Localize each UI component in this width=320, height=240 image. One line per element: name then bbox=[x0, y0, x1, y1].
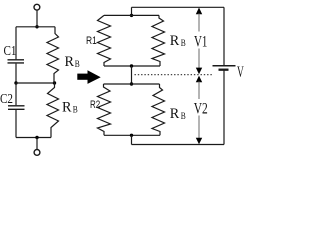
wire bottom-left horizontal bbox=[16, 137, 51, 139]
resistor R2 bbox=[98, 84, 111, 135]
wire right rail stub bottom bbox=[131, 135, 133, 144]
capacitor C2 bbox=[8, 106, 25, 110]
terminal T2 (bottom) bbox=[34, 138, 40, 156]
wire pair-top horizontal bbox=[104, 14, 159, 16]
V1 measurement arrow bbox=[196, 8, 202, 75]
terminal T1 (top input) bbox=[34, 4, 40, 27]
wire right rail stub top bbox=[131, 7, 133, 15]
label RB2 bbox=[62, 99, 78, 115]
wire left rail mid bbox=[15, 64, 17, 83]
wire bottom-right horizontal bbox=[132, 144, 225, 146]
node G junction dot bbox=[130, 82, 133, 85]
resistor RB2 (lower left chain) bbox=[47, 83, 59, 138]
label RB3 bbox=[170, 33, 186, 49]
wire lower pair-bottom horizontal bbox=[104, 134, 160, 136]
svg-text:V1: V1 bbox=[194, 33, 207, 50]
wire node horizontal bbox=[104, 83, 160, 85]
node H junction dot bbox=[130, 134, 133, 137]
svg-text:R1: R1 bbox=[86, 35, 97, 47]
V2 measurement arrow bbox=[196, 76, 202, 145]
resistor R1 bbox=[98, 15, 111, 66]
wire left rail bottom bbox=[15, 110, 17, 138]
svg-text:V: V bbox=[237, 64, 244, 81]
capacitor C1 bbox=[8, 60, 25, 63]
svg-text:B: B bbox=[75, 59, 80, 69]
node A junction dot bbox=[35, 25, 38, 28]
wire battery rail upper bbox=[223, 7, 225, 66]
svg-text:B: B bbox=[73, 104, 78, 114]
wire battery rail lower bbox=[223, 70, 225, 145]
arrow (transformation) bbox=[77, 70, 100, 84]
node C junction dot bbox=[53, 81, 56, 84]
label RB4 bbox=[170, 106, 186, 122]
svg-text:R: R bbox=[170, 106, 180, 122]
node B junction dot bbox=[14, 81, 17, 84]
svg-text:R2: R2 bbox=[90, 99, 100, 111]
resistor RB4 (lower right) bbox=[152, 84, 165, 135]
svg-text:B: B bbox=[181, 38, 186, 48]
wire left rail upper bbox=[15, 27, 17, 60]
svg-text:C2: C2 bbox=[0, 92, 13, 107]
svg-text:V2: V2 bbox=[194, 100, 208, 117]
wire pair-bottom horizontal bbox=[104, 65, 160, 67]
node F junction dot bbox=[130, 64, 133, 67]
dotted reference line bbox=[135, 74, 214, 76]
svg-text:C1: C1 bbox=[4, 44, 17, 59]
node D junction dot bbox=[35, 136, 38, 139]
wire top-left horizontal bbox=[16, 26, 55, 28]
wire left rail lower bbox=[15, 83, 17, 105]
svg-text:R: R bbox=[65, 54, 75, 70]
battery V bbox=[213, 66, 236, 70]
wire top-right horizontal bbox=[132, 6, 225, 8]
wire middle horizontal bbox=[16, 82, 55, 84]
wire mid rail segment bbox=[131, 66, 133, 84]
resistor RB1 (upper left chain) bbox=[47, 27, 59, 83]
svg-text:B: B bbox=[181, 111, 186, 121]
resistor RB3 (upper right) bbox=[152, 15, 165, 66]
svg-text:R: R bbox=[170, 33, 180, 49]
svg-text:R: R bbox=[62, 99, 72, 115]
label RB1 bbox=[65, 54, 80, 70]
node E junction dot bbox=[130, 14, 133, 17]
